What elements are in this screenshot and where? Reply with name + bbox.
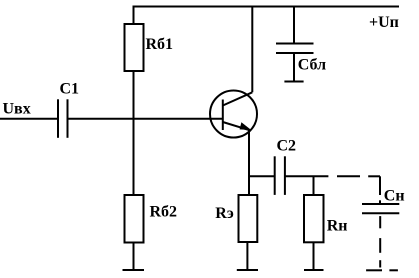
wire dashed to Cn segment 2 [368, 175, 380, 177]
wire dashed Cn top lead segment 2 [379, 200, 381, 204]
capacitor C1 right plate [67, 99, 69, 138]
resistor Re [239, 195, 258, 242]
transistor VT1 body [210, 91, 257, 138]
svg-text:C2: C2 [277, 138, 297, 155]
wire C2 to Rn node [285, 175, 329, 177]
svg-text:C1: C1 [60, 81, 80, 98]
wire Rb2 bottom lead [133, 243, 135, 271]
resistor Rn [304, 195, 324, 242]
capacitor C2 left plate [274, 156, 276, 195]
wire Rn top lead [313, 176, 315, 195]
wire collector to power rail [251, 7, 253, 93]
capacitor C2 right plate [284, 156, 286, 195]
wire dashed Cn bottom lead segment 1 [379, 216, 381, 228]
wire Rb1 bottom to base node to Rb2 [133, 71, 135, 195]
resistor Rb2 [125, 195, 144, 243]
svg-text:+Uп: +Uп [369, 14, 399, 31]
ground Cn dashed segment 2 [389, 269, 398, 271]
wire dashed Cn top lead segment 1 [379, 176, 381, 195]
capacitor Cbl bottom plate [276, 52, 314, 54]
wire dashed Cn bottom lead segment 2 [379, 238, 381, 253]
wire Rb1 top lead [133, 7, 135, 25]
svg-text:Сбл: Сбл [298, 57, 326, 74]
wire C1 to transistor base [68, 118, 223, 120]
wire +Up power rail [133, 6, 400, 8]
wire input Uvx [0, 118, 58, 120]
capacitor Cn top plate [362, 203, 399, 205]
transistor VT1 base bar [222, 100, 224, 131]
wire emitter vertical [248, 130, 250, 195]
ground Cbl [284, 81, 303, 83]
wire Cbl bottom lead [293, 53, 295, 82]
wire dashed to Cn segment 1 [337, 175, 360, 177]
wire Re bottom lead [246, 242, 248, 270]
wire emitter node to C2 [249, 175, 275, 177]
svg-text:Сн: Сн [384, 187, 405, 204]
capacitor Cn bottom plate [362, 212, 399, 214]
transistor VT1 emitter arrow [240, 122, 252, 130]
ground Re [237, 269, 258, 271]
wire Rn bottom lead [313, 242, 315, 270]
capacitor Cbl top plate [276, 43, 314, 45]
ground Cn dashed segment 1 [366, 269, 382, 271]
resistor Rb1 [125, 24, 144, 71]
transistor VT1 emitter lead [223, 122, 250, 130]
svg-text:Rб2: Rб2 [150, 203, 178, 220]
svg-text:Rн: Rн [327, 218, 348, 235]
ground Rb2 [123, 269, 145, 271]
svg-text:Rэ: Rэ [215, 205, 234, 222]
svg-text:Rб1: Rб1 [146, 36, 174, 53]
capacitor Cbl top lead [293, 7, 295, 44]
transistor VT1 collector lead [223, 92, 253, 105]
capacitor C1 left plate [57, 99, 59, 138]
ground Rn [304, 269, 324, 271]
svg-text:Uвх: Uвх [3, 100, 31, 117]
wire dashed Cn bottom lead segment 3 [379, 260, 381, 267]
